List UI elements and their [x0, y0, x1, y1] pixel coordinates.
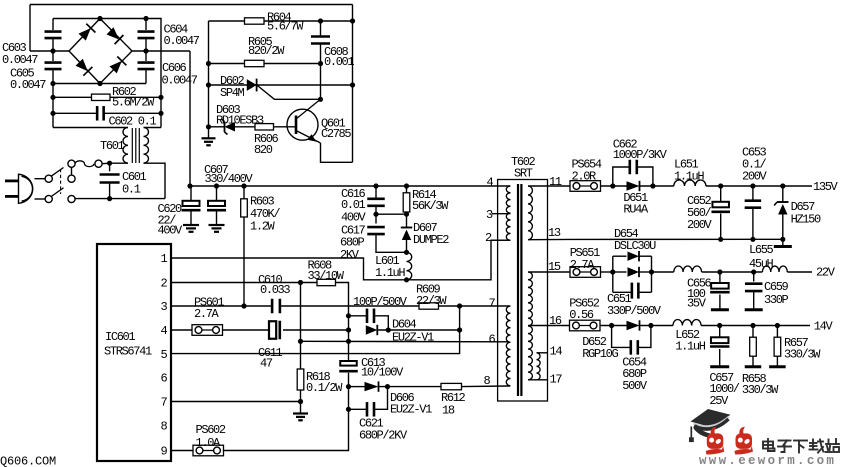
wire	[637, 167, 653, 186]
wire	[52, 39, 54, 51]
svg-text:2.7A: 2.7A	[570, 258, 596, 272]
svg-text:EU2Z-V1: EU2Z-V1	[392, 331, 434, 345]
capacitor C608	[311, 37, 330, 44]
wire	[375, 206, 377, 214]
ground (135V return)	[774, 245, 792, 248]
junction D651 anode	[610, 183, 615, 188]
resistor R604	[245, 18, 265, 24]
capacitor C610	[272, 299, 280, 314]
svg-text:820: 820	[254, 143, 273, 157]
wire	[600, 325, 627, 327]
mains plug P601	[5, 174, 33, 203]
inductor L651	[674, 180, 706, 186]
junction L601 bottom / drain line	[404, 277, 409, 282]
wire	[638, 291, 651, 293]
svg-text:0.0047: 0.0047	[162, 73, 198, 87]
junction D654 block left	[610, 269, 615, 274]
svg-text:2KV: 2KV	[340, 248, 360, 262]
svg-text:C2785: C2785	[321, 127, 351, 141]
transistor Q601	[287, 99, 321, 143]
svg-text:RU4A: RU4A	[623, 203, 649, 217]
wire pin16 stub	[528, 325, 548, 327]
svg-text:1.0A: 1.0A	[196, 436, 222, 450]
wire pin15 stub	[528, 271, 548, 273]
ground (D603)	[202, 138, 216, 145]
wire	[171, 329, 192, 331]
capacitor C652	[711, 202, 730, 212]
wire	[374, 387, 388, 410]
wire	[145, 19, 147, 31]
junction R614 top	[404, 183, 409, 188]
svg-text:0.1/2W: 0.1/2W	[306, 381, 343, 395]
junction D604 anode	[346, 327, 351, 332]
junction pin7 node	[457, 303, 462, 308]
wire	[782, 239, 784, 245]
wire	[719, 349, 721, 366]
diode D606	[365, 381, 379, 391]
wire	[348, 387, 350, 410]
wire C662 branch	[613, 167, 630, 186]
svg-text:IC601: IC601	[105, 330, 135, 344]
fuse F601 symbol	[68, 160, 102, 167]
wire	[320, 64, 322, 100]
diode D603 (zener)	[222, 119, 236, 134]
ground (R658)	[745, 365, 762, 368]
ground (R657)	[769, 365, 786, 368]
watermark graduation cap	[689, 409, 731, 442]
wire	[349, 408, 368, 410]
capacitor C606	[138, 63, 155, 70]
wire pin14 stub	[537, 352, 548, 354]
junction C601 bottom	[107, 196, 112, 201]
wire	[209, 126, 225, 128]
wire	[280, 305, 419, 307]
diode D4 bridge (bottom to right)	[110, 57, 127, 74]
wire bridge right corner to DC+	[132, 50, 190, 52]
wire	[349, 386, 365, 388]
svg-text:400V: 400V	[341, 211, 367, 225]
capacitor C654	[631, 340, 638, 355]
resistor R614	[403, 193, 410, 212]
wire	[223, 329, 270, 331]
wire T601 primary bottom to fuse	[110, 162, 128, 164]
wire	[320, 44, 322, 64]
svg-text:D604: D604	[392, 317, 417, 331]
wire	[719, 326, 721, 338]
svg-text:EU2Z-V1: EU2Z-V1	[390, 403, 432, 417]
wire	[406, 186, 408, 193]
wire	[548, 185, 571, 187]
wire	[379, 386, 442, 388]
watermark text 子	[778, 441, 791, 453]
svg-text:1.1uH: 1.1uH	[375, 266, 405, 280]
junction pin2 / C610 column	[298, 280, 303, 285]
junction R657 top	[775, 323, 780, 328]
junction C616 top	[373, 183, 378, 188]
junction C620	[214, 183, 219, 188]
svg-text:18: 18	[442, 403, 455, 417]
svg-text:DUMPE2: DUMPE2	[413, 233, 449, 247]
wire pin5 to pin7 node	[171, 306, 460, 354]
wire	[752, 326, 754, 338]
svg-text:500V: 500V	[622, 379, 648, 393]
wire	[375, 214, 377, 223]
wire snubber left rail	[208, 21, 210, 127]
svg-text:200V: 200V	[687, 218, 713, 232]
svg-text:330/3W: 330/3W	[784, 347, 821, 361]
wire	[753, 272, 755, 282]
wire right vertical (source return)	[352, 5, 354, 163]
wire	[753, 291, 755, 308]
svg-text:17: 17	[550, 372, 563, 386]
diode D607	[401, 228, 412, 241]
wire	[374, 316, 388, 330]
wire	[639, 255, 652, 257]
svg-text:10/100V: 10/100V	[361, 365, 404, 379]
wire	[776, 326, 778, 338]
wire D604 cathode row	[377, 329, 459, 331]
capacitor C603	[45, 32, 62, 39]
junction	[346, 339, 351, 344]
wire	[102, 162, 110, 165]
svg-text:PS602: PS602	[196, 423, 226, 437]
wire C654 branch	[612, 326, 631, 348]
svg-text:Q606.COM: Q606.COM	[0, 455, 56, 467]
ground (C656)	[711, 308, 729, 311]
wire	[348, 373, 350, 387]
junction rail / C607	[187, 183, 192, 188]
wire pin2 row	[171, 282, 317, 284]
inductor L652	[673, 320, 701, 326]
watermark chongchong glyph 1	[706, 427, 725, 455]
svg-text:1.1uH: 1.1uH	[675, 340, 705, 354]
T602 primary winding (pins 4-3-2)	[506, 186, 510, 240]
junction C602 right	[158, 111, 163, 116]
svg-text:0.1: 0.1	[122, 182, 141, 196]
wire bridge edge BL	[69, 51, 100, 84]
wire to T602 pin6	[301, 340, 511, 343]
svg-text:0.033: 0.033	[260, 283, 290, 297]
wire	[145, 39, 147, 51]
capacitor C601	[100, 175, 120, 183]
junction C652 top	[718, 183, 723, 188]
wire bridge AC bottom	[53, 83, 146, 85]
svg-text:C602 0.1: C602 0.1	[109, 114, 157, 128]
wire	[52, 51, 54, 61]
wire 14V rail	[701, 325, 810, 327]
wire	[406, 240, 408, 252]
junction C659 top	[751, 269, 756, 274]
diode D1 bridge (lower-left to top)	[79, 24, 96, 41]
junction D657 cathode	[780, 183, 785, 188]
wire	[190, 186, 192, 201]
svg-text:330P/500V: 330P/500V	[607, 304, 662, 318]
wire	[216, 210, 218, 224]
wire	[720, 186, 722, 202]
junction C653 top	[750, 183, 755, 188]
junction 100P cap / D604 cathode	[386, 327, 391, 332]
svg-text:RGP10G: RGP10G	[582, 347, 618, 361]
diode D652	[627, 320, 640, 330]
wire	[109, 163, 111, 171]
wire AC line to filter right rail	[146, 19, 161, 98]
junction AC bottom / left rail	[50, 81, 55, 86]
fuse PS601	[192, 325, 223, 336]
resistor R602	[92, 94, 111, 100]
wire to T601 primary top	[53, 127, 128, 129]
wire T601 secondary bottom down	[144, 163, 166, 198]
wire C611 to D604 anode	[283, 329, 349, 331]
junction C621	[346, 407, 351, 412]
wire R604 row	[209, 20, 353, 22]
diode D602	[247, 79, 257, 92]
resistor R605	[245, 60, 265, 66]
wire	[53, 112, 97, 114]
wire plug to switch bottom	[35, 198, 46, 200]
wire	[406, 212, 408, 214]
wire 22V out	[787, 271, 812, 273]
wire	[145, 70, 147, 84]
junction D603 anode / ground	[206, 124, 211, 129]
capacitor C659	[745, 284, 763, 291]
svg-text:135V: 135V	[813, 180, 839, 194]
svg-text:22/3W: 22/3W	[416, 294, 447, 308]
wire switch to fuse	[71, 167, 73, 175]
svg-text:330/3W: 330/3W	[742, 383, 779, 397]
wire D602 cathode to Q601 collector	[257, 85, 321, 99]
wire D654 block left side	[612, 256, 614, 292]
svg-text:33/10W: 33/10W	[308, 269, 345, 283]
transformer T602 core	[518, 184, 521, 396]
wire	[782, 186, 784, 202]
svg-text:14V: 14V	[814, 320, 834, 334]
wire	[376, 213, 407, 215]
svg-text:330P: 330P	[764, 293, 789, 307]
junction R602 left	[50, 95, 55, 100]
junction C608 bottom	[318, 61, 323, 66]
wire	[652, 271, 674, 273]
resistor R657	[774, 337, 781, 356]
wire	[235, 126, 255, 128]
junction C621/D606 cathode	[385, 384, 390, 389]
svg-text:13: 13	[548, 226, 561, 240]
wire	[109, 183, 111, 199]
wire DC+ to bulk caps	[189, 51, 191, 186]
wire	[52, 70, 54, 84]
capacitor C607 (bulk)	[182, 201, 201, 210]
wire	[300, 283, 302, 342]
transformer T601 left winding	[123, 128, 128, 164]
capacitor C653	[745, 201, 762, 208]
junction	[780, 237, 785, 242]
wire plug to switch top	[35, 178, 46, 180]
junction C603/C605 mid node	[50, 48, 55, 53]
diode D654b	[628, 267, 640, 277]
wire	[782, 215, 784, 240]
watermark text 电	[763, 439, 775, 451]
wire	[110, 96, 161, 98]
wire left drop to bridge minus	[29, 5, 31, 52]
ground (C657)	[710, 365, 729, 368]
svg-text:0.001: 0.001	[324, 55, 354, 69]
ground (C607)	[183, 225, 199, 232]
svg-text:HZ150: HZ150	[791, 212, 821, 226]
capacitor C617	[367, 227, 385, 234]
svg-text:SP4M: SP4M	[220, 86, 245, 100]
svg-text:100P/500V: 100P/500V	[353, 295, 408, 309]
IC U601 body (IC601 STRS6741)	[97, 244, 171, 461]
svg-text:RD10ESB3: RD10ESB3	[216, 113, 264, 127]
transformer T602 outline	[498, 180, 548, 402]
wire	[640, 325, 674, 327]
capacitor C602	[97, 106, 104, 121]
junction D651 cathode	[650, 183, 655, 188]
wire	[160, 97, 162, 127]
fuse PS651	[570, 267, 601, 278]
T602 secondary winding (pins 15-16-17)	[528, 272, 532, 380]
svg-text:5.6/7W: 5.6/7W	[267, 19, 304, 33]
svg-text:14: 14	[550, 344, 563, 358]
svg-text:56K/3W: 56K/3W	[412, 199, 449, 213]
wire	[491, 239, 511, 241]
svg-text:STRS6741: STRS6741	[104, 344, 152, 358]
capacitor C651	[632, 283, 639, 299]
junction AC top / C604	[143, 16, 148, 21]
wire R612 to T602 pin8	[462, 385, 511, 388]
wire	[104, 112, 161, 114]
wire	[601, 185, 627, 187]
svg-text:680P: 680P	[340, 235, 365, 249]
capacitor C657	[710, 337, 730, 346]
junction R614 bottom / D607	[404, 212, 409, 217]
watermark text 下	[794, 441, 807, 453]
wire	[613, 271, 627, 273]
inductor L601	[407, 252, 412, 280]
fuse PS652	[570, 320, 601, 331]
wire DC- top rail	[30, 4, 353, 6]
wire D654 block right side	[651, 256, 653, 292]
wire	[190, 210, 192, 224]
svg-text:0.0047: 0.0047	[164, 34, 200, 48]
svg-text:2.0R: 2.0R	[572, 170, 597, 184]
svg-text:0.0047: 0.0047	[2, 53, 38, 67]
svg-text:35V: 35V	[687, 297, 707, 311]
junction R603 top	[241, 183, 246, 188]
watermark text 载	[810, 440, 824, 453]
T602 feedback winding (pins 7-6-8)	[506, 306, 510, 386]
junction D602 left	[206, 82, 211, 87]
wire R605 row	[209, 63, 321, 65]
wire T601 secondary top	[144, 127, 162, 129]
junction C616/C617	[373, 212, 378, 217]
svg-text:0.56: 0.56	[569, 308, 594, 322]
capacitor C620	[207, 201, 226, 210]
diode D654a	[628, 251, 640, 261]
junction D652 anode	[609, 323, 614, 328]
wire	[719, 295, 721, 309]
junction pin7 ground node	[298, 399, 303, 404]
wire bridge edge TL	[69, 19, 100, 52]
svg-text:SRT: SRT	[514, 166, 533, 180]
wire T602 pin3 stub	[492, 213, 511, 215]
wire pin17 stub	[528, 379, 548, 381]
wire main HV rail to T602 pin4	[190, 185, 510, 187]
wire	[145, 51, 147, 61]
wire 135V return (pin13)	[570, 238, 783, 240]
junction collector node	[318, 97, 323, 102]
svg-text:0.0047: 0.0047	[10, 78, 46, 92]
wire	[776, 356, 778, 365]
junction	[750, 237, 755, 242]
capacitor C613	[339, 361, 358, 371]
wire 135V rail	[706, 185, 812, 187]
wire R603 to pin3 line	[243, 217, 245, 306]
wire mains bottom line	[75, 198, 165, 200]
node bridge AC2 (bottom corner)	[97, 81, 102, 86]
junction R658 top	[750, 323, 755, 328]
capacitor C662	[630, 160, 637, 175]
resistor R618	[297, 369, 304, 390]
svg-text:1.2W: 1.2W	[250, 219, 276, 233]
svg-text:820/2W: 820/2W	[248, 44, 285, 58]
wire	[349, 315, 368, 317]
wire pin13 stub	[528, 238, 570, 240]
inductor (22V filter)	[674, 266, 702, 272]
junction D654 block right	[649, 269, 654, 274]
junction C604/C606 mid node	[143, 48, 148, 53]
wire	[375, 186, 377, 198]
diode D657 (zener)	[774, 202, 788, 215]
wire	[548, 271, 571, 273]
wire bridge edge TR	[100, 19, 132, 52]
junction R605 left	[206, 61, 211, 66]
wire	[640, 271, 652, 273]
wire C617 to L601 top	[376, 234, 407, 252]
transformer T601 core	[132, 128, 139, 163]
wire	[613, 255, 627, 257]
fuse PS602	[193, 445, 224, 456]
svg-text:T601: T601	[100, 139, 125, 153]
ground (IC pin7)	[293, 414, 308, 421]
wire	[406, 214, 408, 228]
capacitor C604	[138, 32, 155, 39]
resistor R612	[441, 383, 462, 389]
wire pin3 row	[171, 305, 272, 307]
T602 winding tap (pin 14)	[537, 353, 541, 380]
wire	[243, 186, 245, 199]
capacitor C605	[45, 63, 62, 70]
wire	[300, 390, 302, 402]
wire	[53, 96, 92, 98]
wire	[752, 186, 754, 201]
junction	[298, 339, 303, 344]
svg-text:25V: 25V	[709, 394, 729, 408]
watermark chongchong glyph 2	[735, 427, 754, 455]
svg-text:1000P/3KV: 1000P/3KV	[613, 148, 668, 162]
wire R608 to feedback column	[336, 283, 349, 316]
wire	[52, 19, 54, 31]
wire	[216, 186, 218, 201]
wire base lead	[274, 126, 296, 128]
junction D607 anode / L601	[404, 250, 409, 255]
svg-text:www.eeworm.com: www.eeworm.com	[699, 454, 836, 467]
svg-text:5.6M/2W: 5.6M/2W	[112, 95, 155, 109]
resistor R603	[241, 199, 248, 217]
wire	[320, 21, 322, 37]
junction D604 cathode	[457, 327, 462, 332]
inductor L655	[762, 266, 787, 272]
junction	[350, 82, 355, 87]
